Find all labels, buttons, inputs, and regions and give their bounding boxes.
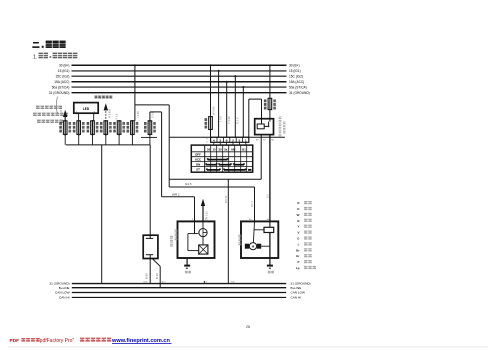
wire bus line 15A [72, 81, 287, 83]
junction tick x204 [204, 281, 208, 284]
svg-text:PDF: PDF [10, 338, 20, 344]
svg-text:15A (ACC): 15A (ACC) [289, 80, 304, 84]
wire ST into starter [251, 187, 255, 221]
svg-text:OFF: OFF [195, 153, 201, 157]
svg-text:1.: 1. [33, 54, 38, 60]
wire bottom bus 31 (GROUND) [72, 283, 286, 285]
wire fuse drop x119 [118, 134, 120, 145]
svg-text:15C (IG2): 15C (IG2) [56, 74, 70, 78]
svg-text:B+LINE: B+LINE [59, 286, 70, 290]
svg-text:W 0.5: W 0.5 [60, 105, 63, 112]
svg-text:28: 28 [246, 325, 250, 329]
wire collector [66, 144, 150, 146]
wire to ground-bus [225, 179, 228, 283]
svg-text:B/Y 3: B/Y 3 [251, 201, 254, 207]
svg-text:R/W 0.85: R/W 0.85 [206, 211, 209, 222]
svg-text:V: V [297, 231, 299, 235]
svg-text:2: 2 [232, 139, 234, 143]
svg-text:B 3.0: B 3.0 [151, 112, 154, 118]
wire stub y137 [141, 136, 157, 138]
svg-text:3: 3 [219, 139, 221, 143]
wire bus line 31 [72, 92, 287, 94]
svg-text:Y: Y [297, 225, 299, 229]
wire code relay [283, 121, 286, 124]
svg-text:LED: LED [83, 107, 90, 111]
svg-text:50: 50 [207, 148, 211, 152]
label 起动继电器 [279, 117, 282, 118]
connector arrow A2 [104, 103, 112, 121]
svg-text:“pdfFactory Pro”: “pdfFactory Pro” [38, 338, 74, 344]
svg-text:30: 30 [218, 148, 222, 152]
generator regulator box [199, 245, 208, 254]
wire IG feed 3 [226, 81, 231, 138]
label 起动机 [238, 235, 241, 236]
svg-text:5: 5 [239, 139, 241, 143]
wire H2 to starter [169, 186, 254, 188]
svg-text:1: 1 [245, 139, 247, 143]
generator box [178, 221, 215, 258]
svg-text:L 0.5: L 0.5 [219, 116, 223, 122]
svg-text:50a (ST/CA): 50a (ST/CA) [289, 85, 307, 89]
svg-text:B+LINE: B+LINE [291, 286, 302, 290]
starter brush right [257, 244, 261, 249]
starter ground [267, 266, 273, 269]
wire bus to F25 vertical [134, 65, 136, 121]
battery box [143, 235, 158, 258]
generator ground wire [186, 258, 188, 266]
svg-text:4: 4 [213, 139, 215, 143]
wire bus line 15C [72, 75, 287, 77]
wire gen L in [194, 197, 196, 234]
starter solenoid [264, 227, 274, 232]
wire IG feed 1 [209, 64, 211, 137]
wire fuse drop x150 [149, 134, 151, 145]
svg-text:G/L 5: G/L 5 [185, 182, 192, 186]
svg-text:15C (IG2): 15C (IG2) [289, 74, 303, 78]
wire loop A top [135, 104, 169, 106]
svg-text:ON: ON [196, 162, 200, 166]
footer rule [8, 346, 488, 348]
starter internal wires [253, 221, 270, 258]
svg-text:W/R 2: W/R 2 [172, 192, 180, 196]
battery plates [146, 238, 153, 254]
wire relay supply [269, 64, 271, 118]
fuse F30 [205, 106, 216, 130]
wire bus line 30 [72, 64, 287, 66]
svg-text:30 (B+): 30 (B+) [59, 64, 70, 68]
svg-text:31 (GROUND): 31 (GROUND) [49, 91, 70, 95]
svg-text:15 (IG1): 15 (IG1) [289, 69, 301, 73]
battery to ground bus [149, 255, 151, 284]
wire relay coil loop [249, 99, 262, 137]
fuse F01 30A [264, 98, 276, 109]
wire IG feed 5 [242, 86, 244, 137]
svg-text:5a: 5a [224, 148, 228, 152]
svg-text:6: 6 [226, 139, 228, 143]
starter brush left [245, 244, 249, 249]
svg-text:CAN LOW: CAN LOW [291, 291, 306, 295]
wire bus line 50a [72, 86, 287, 88]
LED lamp box [74, 103, 98, 121]
note line1 油箱行李箱 [36, 106, 40, 107]
fuse F04 [100, 120, 112, 136]
starter motor M [249, 243, 256, 250]
svg-text:R 2.0: R 2.0 [235, 117, 239, 124]
wire loop B riser [149, 112, 151, 121]
svg-text:W: W [297, 213, 300, 217]
wire fuse drop x65 [64, 134, 66, 145]
wire relay to starter [267, 135, 270, 222]
svg-text:15A (ACC): 15A (ACC) [54, 80, 69, 84]
svg-text:15: 15 [213, 148, 217, 152]
wire bottom bus B+LINE [72, 287, 286, 289]
generator ground [184, 266, 190, 269]
wire collector to ground bus [101, 145, 103, 284]
wire collector to battery [149, 145, 151, 239]
note line3 与点烟器电源 [37, 120, 41, 121]
wire H1 to relay [169, 135, 261, 180]
fuse F07 [144, 120, 156, 136]
svg-text:W 0.85B: W 0.85B [109, 108, 112, 118]
svg-text:CAN LOW: CAN LOW [55, 291, 70, 295]
ignition switch contacts [206, 158, 251, 170]
svg-text:B/R 30: B/R 30 [225, 195, 228, 203]
wire IG feed 2 [218, 70, 223, 138]
wire loop B vertical [161, 112, 163, 197]
svg-text:W 0.85: W 0.85 [211, 106, 215, 115]
note line2 开启控制器 [33, 113, 37, 114]
footer watermark [10, 338, 172, 344]
svg-text:ST: ST [196, 168, 200, 172]
junction dot F25 feed [134, 64, 136, 66]
svg-text:15 (IG1): 15 (IG1) [58, 69, 70, 73]
wire fuse drop x106 [105, 134, 107, 145]
fuse F01 [59, 120, 71, 136]
wire fuse drop x79 [78, 134, 80, 145]
bracket note [56, 97, 57, 115]
starter box [241, 221, 278, 258]
svg-text:B1: B1 [242, 148, 246, 152]
title 二、原理图 [33, 42, 39, 44]
svg-text:50a (ST/CA): 50a (ST/CA) [52, 85, 70, 89]
svg-text:L 0.85: L 0.85 [137, 111, 140, 118]
svg-text:CAN HI: CAN HI [59, 296, 70, 300]
starter ground label [268, 270, 271, 273]
svg-text:CAN HI: CAN HI [291, 296, 302, 300]
svg-text:B 5: B 5 [267, 194, 270, 198]
starter ground wire [269, 258, 271, 266]
label 蓄电池 [170, 236, 173, 237]
color code legend [296, 201, 316, 270]
svg-text:Lg: Lg [296, 266, 300, 270]
fuse F03 [87, 120, 99, 136]
svg-text:AM: AM [231, 148, 236, 152]
relay K1 coil [257, 124, 264, 129]
wire fuse drop x132 [131, 134, 133, 145]
connector arrow A1 [60, 105, 67, 121]
wire bottom bus CAN LOW [72, 292, 286, 294]
battery to B+ line [152, 259, 160, 288]
connector pin row [206, 137, 249, 146]
wire IG feed 4 [234, 75, 239, 137]
svg-text:B 85: B 85 [144, 273, 148, 279]
generator ground label [185, 270, 188, 273]
fuse F05 [113, 120, 125, 136]
relay K1 contact [262, 119, 270, 128]
relay K1 box [255, 119, 274, 135]
svg-text:L: L [298, 242, 300, 246]
wire loop A vertical [168, 105, 170, 187]
svg-text:Y 0.85: Y 0.85 [227, 116, 231, 124]
connector arrow gen [201, 199, 209, 222]
label 发电机 [175, 230, 178, 231]
wire loop B top [150, 111, 162, 113]
wire bottom bus CAN HI [72, 296, 286, 298]
generator internal wires [188, 221, 203, 250]
svg-text:B 30: B 30 [155, 273, 159, 279]
svg-text:ACC: ACC [195, 158, 202, 162]
wire main y137 [170, 136, 285, 138]
fuse F06 [127, 120, 139, 136]
wire L-line to generator [162, 196, 195, 198]
generator armature circle [199, 229, 207, 237]
wire fuse drop x92 [92, 134, 94, 145]
svg-text:P: P [297, 260, 299, 264]
svg-text:31 (GROUND): 31 (GROUND) [289, 91, 310, 95]
svg-text:R 0.5: R 0.5 [116, 113, 119, 119]
fuse F02 [73, 120, 85, 136]
ignition switch table [191, 145, 252, 172]
label 风扇继电器 [95, 96, 98, 97]
svg-text:30 (B+): 30 (B+) [289, 64, 300, 68]
wire bus line 15 [72, 70, 287, 72]
